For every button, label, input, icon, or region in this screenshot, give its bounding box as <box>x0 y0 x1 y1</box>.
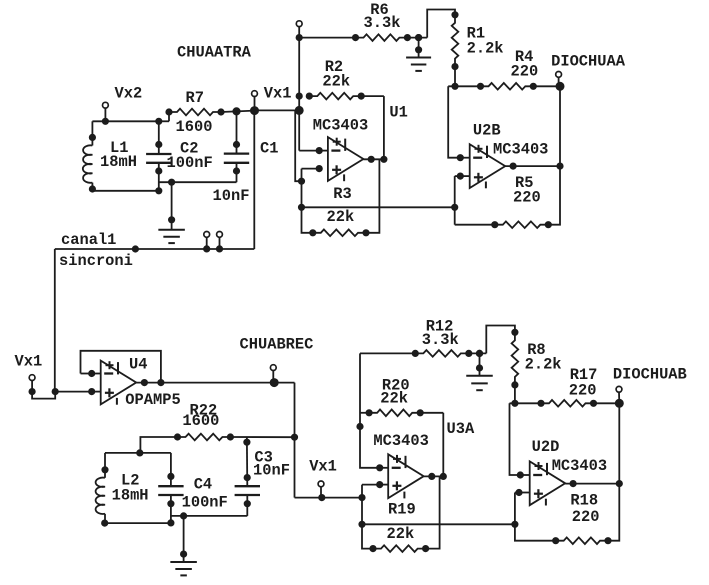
resistor R18 <box>515 484 619 544</box>
svg-text:canal1: canal1 <box>61 231 116 249</box>
resistor R3 <box>310 159 380 236</box>
capacitor C1 <box>224 108 249 182</box>
resistor R22 <box>174 434 294 441</box>
inductor L2 <box>96 453 109 526</box>
svg-text:U4: U4 <box>129 356 147 374</box>
resistor R20 <box>360 410 443 417</box>
svg-text:CHUAATRA: CHUAATRA <box>177 44 252 62</box>
svg-text:R19: R19 <box>388 500 416 518</box>
label R22 <box>182 401 219 430</box>
terminal Vx1 bottom <box>309 457 337 500</box>
ground <box>158 179 185 243</box>
svg-text:220: 220 <box>513 188 541 206</box>
terminal CHUABREC <box>270 365 278 387</box>
resistor R17 <box>510 400 620 407</box>
svg-text:MC3403: MC3403 <box>552 457 607 475</box>
svg-text:R3: R3 <box>333 185 351 203</box>
svg-text:Vx1: Vx1 <box>15 353 43 371</box>
svg-text:Vx1: Vx1 <box>264 85 292 103</box>
label U3A <box>373 420 475 450</box>
svg-text:C4: C4 <box>194 475 212 493</box>
label R5 <box>513 174 541 206</box>
wire U2B plus <box>454 176 456 225</box>
svg-text:U2B: U2B <box>473 122 501 140</box>
op-amp U3A <box>362 454 424 498</box>
title CHUAATRA <box>177 44 252 62</box>
label R2 <box>322 58 350 90</box>
svg-text:2.2k: 2.2k <box>467 40 504 58</box>
svg-text:DIOCHUAA: DIOCHUAA <box>551 53 626 71</box>
resistor R7 <box>159 109 237 122</box>
wire U3A out <box>424 473 447 479</box>
svg-text:100nF: 100nF <box>182 493 228 511</box>
svg-text:22k: 22k <box>380 390 408 408</box>
svg-text:MC3403: MC3403 <box>373 432 428 450</box>
svg-text:U3A: U3A <box>447 420 475 438</box>
svg-text:22k: 22k <box>387 525 415 543</box>
wire U4 out <box>136 380 294 386</box>
label R3 <box>327 185 355 226</box>
capacitor C2 <box>146 118 171 191</box>
wire U2D plus <box>514 493 516 525</box>
label U4 <box>125 356 180 409</box>
terminal Vx1 <box>251 85 292 115</box>
svg-text:1600: 1600 <box>182 412 219 430</box>
label U2D <box>532 438 608 475</box>
svg-text:DIOCHUAB: DIOCHUAB <box>613 365 687 383</box>
wire R22-tank <box>140 437 177 453</box>
label C3 <box>253 449 290 480</box>
svg-text:MC3403: MC3403 <box>313 116 368 134</box>
label R12 <box>422 318 459 349</box>
label L2 <box>112 472 149 505</box>
wire U2D out <box>565 481 622 487</box>
resistor R4 <box>448 83 560 90</box>
label U1 <box>313 104 408 135</box>
wire to ground <box>159 181 237 183</box>
svg-text:18mH: 18mH <box>112 487 149 505</box>
wire tank2 bottom <box>105 520 174 526</box>
wire to ground2 <box>171 515 247 517</box>
svg-text:22k: 22k <box>322 73 350 91</box>
label R6 <box>364 1 401 32</box>
svg-text:MC3403: MC3403 <box>493 141 548 159</box>
wire mid rail2 <box>362 521 518 527</box>
terminal bus 1 <box>204 232 210 252</box>
terminal input <box>296 21 302 27</box>
label R4 <box>511 48 539 81</box>
svg-text:Vx1: Vx1 <box>309 457 337 475</box>
capacitor C4 <box>158 453 183 523</box>
wire U1 out <box>363 156 387 162</box>
wire mid rail <box>302 204 458 210</box>
wire Vx1 rail <box>237 110 300 111</box>
ground <box>170 513 197 576</box>
label C4 <box>182 475 228 511</box>
svg-text:U2D: U2D <box>532 438 560 456</box>
resistor R5 <box>455 166 560 228</box>
label R17 <box>569 366 598 399</box>
label C2 <box>167 140 213 173</box>
title CHUABREC <box>240 336 314 354</box>
label C1 <box>213 140 279 205</box>
wire U2B out <box>505 163 563 169</box>
wire R2 return <box>383 96 385 159</box>
svg-text:10nF: 10nF <box>213 187 250 205</box>
svg-text:C1: C1 <box>260 140 278 158</box>
svg-text:U1: U1 <box>389 104 407 122</box>
terminal DIOCHUAB <box>613 365 687 483</box>
wire jog <box>32 389 58 399</box>
op-amp U2D <box>510 403 566 505</box>
wire to U4 plus <box>55 389 100 395</box>
terminal DIOCHUAA <box>551 53 626 167</box>
wire U4 feedback <box>81 351 161 383</box>
ground <box>466 350 493 390</box>
terminal bus 2 <box>216 232 222 252</box>
label R20 <box>380 376 409 407</box>
svg-text:220: 220 <box>572 508 600 526</box>
op-amp U2B <box>448 86 505 188</box>
resistor R6 <box>299 34 427 41</box>
svg-text:3.3k: 3.3k <box>422 331 459 349</box>
net canal1 <box>61 231 116 249</box>
label R18 <box>570 491 599 526</box>
wire U3A plus <box>359 485 373 549</box>
capacitor C3 <box>235 437 260 516</box>
wire U1 plus <box>295 110 313 232</box>
svg-text:220: 220 <box>511 63 539 81</box>
wire R6-R1 <box>427 10 455 38</box>
wire canal bus <box>55 246 255 252</box>
svg-text:3.3k: 3.3k <box>364 14 401 32</box>
op-amp U4 <box>81 361 137 405</box>
ground <box>406 35 431 71</box>
wire input rail <box>295 27 303 151</box>
svg-text:CHUABREC: CHUABREC <box>240 336 314 354</box>
label R1 <box>467 25 504 58</box>
svg-text:Vx2: Vx2 <box>115 85 143 103</box>
resistor R19 <box>370 476 440 552</box>
wire Vx1 rail2 <box>295 495 366 501</box>
wire R20 return <box>442 413 444 477</box>
svg-text:R7: R7 <box>186 89 204 107</box>
op-amp U1 <box>299 137 363 181</box>
label R7 <box>176 89 213 136</box>
terminal Vx2 <box>102 85 142 125</box>
resistor R12 <box>360 350 486 357</box>
svg-text:100nF: 100nF <box>167 154 213 172</box>
label U2B <box>473 122 549 159</box>
svg-text:sincroni: sincroni <box>59 252 133 270</box>
resistor R8 <box>512 329 519 403</box>
svg-text:OPAMP5: OPAMP5 <box>125 391 180 409</box>
wire tank bottom <box>92 188 161 194</box>
wire tank2 top <box>105 450 171 456</box>
terminal Vx1 left <box>15 353 43 395</box>
inductor L1 <box>83 121 96 192</box>
svg-text:2.2k: 2.2k <box>525 356 562 374</box>
wire Vx1 drop <box>253 111 255 249</box>
label L1 <box>100 139 137 171</box>
svg-text:1600: 1600 <box>176 118 213 136</box>
resistor R2 <box>306 93 384 100</box>
svg-text:22k: 22k <box>327 208 355 226</box>
svg-text:18mH: 18mH <box>100 153 137 171</box>
svg-text:R18: R18 <box>570 491 598 509</box>
svg-text:10nF: 10nF <box>253 461 290 479</box>
wire CHUABREC rail <box>291 383 297 498</box>
label R19 <box>387 500 416 543</box>
wire tank top <box>92 120 158 122</box>
wire left drop <box>54 249 56 392</box>
net sincroni <box>59 252 133 270</box>
wire R12-R8 <box>486 326 515 354</box>
svg-text:220: 220 <box>569 381 597 399</box>
resistor R1 <box>452 12 459 87</box>
wire U3A left <box>357 353 388 471</box>
label R8 <box>525 341 562 374</box>
